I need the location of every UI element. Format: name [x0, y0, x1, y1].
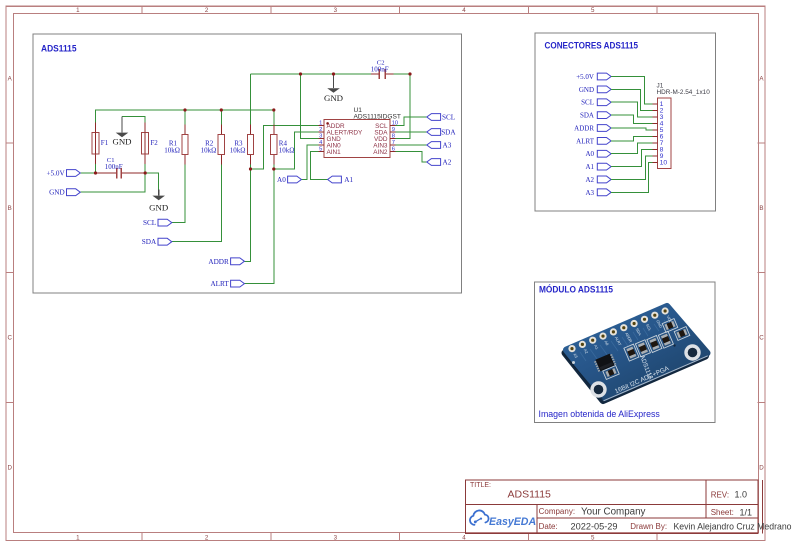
svg-text:A1: A1 [344, 176, 353, 184]
frame column ticks [142, 6, 657, 540]
svg-text:ADS1115: ADS1115 [41, 44, 77, 54]
port flag SCL connector [597, 99, 611, 106]
R2 top wire segment [220, 110, 222, 125]
wire ALRT port up to R4 junction [244, 169, 274, 284]
wire U1 pin 5 AIN1 to A1 port [310, 152, 327, 180]
svg-text:HDR-M-2.54_1x10: HDR-M-2.54_1x10 [657, 89, 711, 96]
wire U1 pin 7 AIN3 to A3 port [396, 144, 427, 146]
IC U1 left pin stubs [319, 126, 325, 152]
resistor R1 [182, 135, 188, 155]
port flag ADDR [231, 258, 245, 265]
module photo ADS1115 breakout board [563, 307, 708, 401]
svg-text:ALRT: ALRT [210, 280, 229, 288]
C1 pins [96, 172, 146, 174]
port flag GND connector [597, 86, 611, 93]
svg-text:Sheet:: Sheet: [711, 508, 734, 517]
svg-text:A2: A2 [585, 176, 594, 184]
wire F1 bottom to junction [95, 164, 97, 173]
svg-text:100nF: 100nF [371, 66, 389, 74]
wire R1 bottom to SCL port [172, 165, 185, 223]
svg-text:Your Company: Your Company [581, 506, 646, 517]
port flag SDA connector [597, 112, 611, 119]
wire A2 to J1 pin 9 [611, 156, 652, 180]
svg-text:SDA: SDA [441, 129, 456, 137]
port flag SCL [158, 219, 172, 226]
wire U1 pin 4 AIN0 to A0 port [301, 145, 319, 180]
svg-text:+5.0V: +5.0V [576, 73, 594, 81]
R1 top wire segment [184, 110, 186, 125]
svg-text:A3: A3 [443, 142, 452, 150]
svg-text:CONECTORES ADS1115: CONECTORES ADS1115 [545, 41, 639, 51]
port flag GND [67, 189, 81, 196]
port flag ADDR connector [597, 125, 611, 132]
C2 pins [371, 73, 394, 75]
module box MODULO ADS1115 [535, 282, 716, 423]
wire R4 junction to U1 pin 2 ALERT/RDY [274, 132, 319, 169]
port flag A0 [288, 176, 302, 183]
svg-text:C: C [759, 335, 764, 342]
svg-text:+5.0V: +5.0V [46, 170, 65, 178]
wire U1 pin 8 VDD up to rail [396, 74, 411, 139]
svg-text:2: 2 [205, 535, 209, 542]
port flag A0 connector [597, 150, 611, 157]
wire R4 top pin [273, 110, 275, 125]
F2 pins [144, 123, 146, 165]
wire +5.0V port to C1 junction [80, 172, 95, 174]
wire R3 bottom to junction [250, 165, 252, 170]
wire GND rail y74 left of C2 [251, 73, 372, 75]
svg-text:Date:: Date: [539, 522, 558, 531]
svg-text:GND: GND [49, 189, 65, 197]
connector J1 pin numbers [660, 101, 668, 167]
svg-text:AIN2: AIN2 [373, 149, 388, 156]
svg-text:Kevin Alejandro Cruz Medrano: Kevin Alejandro Cruz Medrano [674, 521, 792, 531]
wire +5.0V to J1 pin 1 [611, 77, 652, 104]
junction R4 bottom [272, 167, 275, 170]
IC U1 right pin numbers [392, 121, 398, 153]
frame column labels 1-5 bottom [76, 535, 595, 542]
svg-text:9: 9 [392, 127, 395, 133]
svg-text:7: 7 [392, 140, 395, 146]
wire R2 bottom to SDA port [172, 165, 222, 242]
svg-text:SDA: SDA [142, 238, 157, 246]
capacitor C1 [117, 168, 121, 178]
wire U1 pin 6 AIN2 to A2 port [396, 152, 427, 163]
port flag SDA [158, 238, 172, 245]
frame row labels A-D right [759, 75, 764, 471]
port flag SCL left-pointing [427, 114, 441, 121]
svg-text:1/1: 1/1 [740, 508, 753, 518]
svg-text:100nF: 100nF [105, 163, 123, 171]
svg-text:GND: GND [149, 202, 168, 212]
svg-text:SCL: SCL [442, 114, 455, 122]
junction +5V C1 [94, 171, 97, 174]
wire GND rail y74 right of C2 [394, 73, 411, 75]
svg-text:D: D [7, 464, 12, 471]
junction GND rail symbol [332, 72, 335, 75]
wire ADDR to J1 pin 5 [611, 128, 652, 130]
wire ALRT to J1 pin 6 [611, 136, 652, 141]
wire A1 to J1 pin 8 [611, 149, 652, 166]
junction GND rail pin3 [299, 72, 302, 75]
svg-text:ADS1115: ADS1115 [508, 489, 552, 501]
port flag A2 left-pointing [427, 159, 441, 166]
fuse F2 [142, 133, 149, 155]
main schematic box ADS1115 [33, 34, 462, 293]
svg-text:GND: GND [324, 93, 343, 103]
wire ADDR port up to R3 junction [244, 169, 251, 261]
svg-text:A0: A0 [277, 176, 286, 184]
R4 pins [273, 125, 275, 165]
port flag A3 left-pointing [427, 142, 441, 149]
svg-text:ALRT: ALRT [576, 137, 595, 145]
fuse F1 [92, 133, 99, 155]
port flag +5.0V [67, 170, 81, 177]
svg-text:A3: A3 [585, 189, 594, 197]
svg-text:1.0: 1.0 [735, 489, 748, 499]
wire GND rail to U1 pin 3 GND [301, 74, 319, 139]
svg-text:AIN1: AIN1 [327, 149, 342, 156]
port flag A1 connector [597, 163, 611, 170]
svg-text:A0: A0 [585, 150, 594, 158]
svg-text:2022-05-29: 2022-05-29 [571, 521, 618, 531]
wire R4 bottom to junction [273, 165, 275, 170]
svg-text:3: 3 [334, 7, 338, 14]
IC U1 left pin numbers [319, 121, 323, 153]
wire F2 top to GND symbol 1 bridge [122, 116, 145, 122]
svg-text:3: 3 [319, 134, 322, 140]
svg-text:F1: F1 [101, 139, 109, 147]
svg-text:10kΩ: 10kΩ [201, 146, 217, 154]
svg-text:GND: GND [579, 86, 594, 94]
wire SCL to J1 pin 3 [611, 102, 652, 117]
svg-text:Imagen obtenida de AliExpress: Imagen obtenida de AliExpress [539, 409, 661, 419]
svg-text:Drawn By:: Drawn By: [630, 522, 667, 531]
wire junction to GND symbol 2 [145, 173, 159, 191]
title block outline [466, 480, 763, 534]
EasyEDA logo [470, 510, 536, 527]
F1 pins [95, 123, 97, 165]
wire F2 bottom to junction [144, 164, 146, 173]
wire A3 to J1 pin 10 [611, 162, 652, 192]
junction VDD rail [408, 72, 411, 75]
wire A0 to J1 pin 7 [611, 143, 652, 154]
svg-text:GND: GND [112, 136, 131, 146]
wire R3 junction to U1 pin 1 ADDR [251, 126, 319, 170]
svg-text:SCL: SCL [581, 99, 594, 107]
svg-text:5: 5 [591, 7, 595, 14]
wire R3 top to GND rail [250, 74, 252, 125]
svg-text:SCL: SCL [143, 219, 156, 227]
port flag +5.0V connector [597, 73, 611, 80]
connector J1 body [657, 98, 670, 169]
ground symbol below C1 junction [158, 190, 160, 196]
connector box CONECTORES ADS1115 [535, 33, 716, 211]
svg-text:D: D [759, 464, 764, 471]
frame row labels A-D left [7, 75, 12, 471]
svg-text:SDA: SDA [580, 112, 594, 120]
svg-text:1: 1 [319, 121, 322, 127]
junction R4 top [272, 108, 275, 111]
svg-text:REV:: REV: [711, 490, 729, 499]
svg-text:4: 4 [462, 535, 466, 542]
IC U1 right pin stubs [390, 126, 396, 152]
svg-text:B: B [8, 205, 12, 212]
svg-text:Company:: Company: [539, 507, 575, 516]
frame row ticks [6, 143, 765, 402]
svg-text:8: 8 [392, 134, 395, 140]
svg-text:3: 3 [334, 535, 338, 542]
svg-text:ADS1115IDGST: ADS1115IDGST [354, 113, 401, 120]
svg-text:10: 10 [392, 121, 398, 127]
junction R1 top [183, 108, 186, 111]
svg-text:6: 6 [392, 147, 395, 153]
svg-text:ADDR: ADDR [208, 258, 229, 266]
IC U1 left pin names [327, 123, 363, 156]
svg-text:2: 2 [205, 7, 209, 14]
svg-text:1: 1 [76, 535, 80, 542]
svg-text:10kΩ: 10kΩ [279, 146, 295, 154]
junction R2 top [220, 108, 223, 111]
ground symbol near F2 top [121, 116, 123, 132]
R3 pins [250, 125, 252, 165]
wire +5V rail y110 [96, 110, 274, 123]
port flag A3 connector [597, 189, 611, 196]
junction GND C1 [144, 171, 147, 174]
resistor R3 [247, 135, 253, 155]
wire GND to J1 pin 2 [611, 89, 652, 110]
resistor R2 [218, 135, 224, 155]
svg-text:A2: A2 [443, 159, 452, 167]
svg-text:EasyEDA: EasyEDA [489, 516, 536, 528]
svg-text:ADDR: ADDR [574, 124, 594, 132]
port flag ALRT [231, 280, 245, 287]
IC U1 pin1 marker dot [326, 122, 329, 125]
svg-text:TITLE:: TITLE: [470, 482, 491, 489]
svg-text:F2: F2 [150, 139, 158, 147]
svg-text:10kΩ: 10kΩ [164, 146, 180, 154]
junction R3 bottom [249, 167, 252, 170]
ground symbol on GND rail near C2 [333, 74, 335, 88]
frame column labels 1-5 top [76, 7, 595, 14]
svg-text:A1: A1 [585, 163, 594, 171]
svg-text:10: 10 [660, 160, 668, 167]
R2 pins [220, 125, 222, 165]
svg-text:B: B [759, 205, 763, 212]
svg-text:1: 1 [76, 7, 80, 14]
wire U1 pin 9 to SDA port right [396, 131, 427, 133]
IC U1 ADS1115IDGST body [324, 120, 390, 158]
R1 pins [184, 125, 186, 165]
wire GND port to F2 junction [80, 173, 145, 192]
svg-text:5: 5 [319, 147, 322, 153]
connector J1 pin stubs [653, 104, 658, 163]
svg-text:4: 4 [462, 7, 466, 14]
IC U1 right pin names [373, 123, 388, 156]
port flag ALRT connector [597, 137, 611, 144]
wire SDA to J1 pin 4 [611, 115, 652, 123]
port flag SDA left-pointing [427, 129, 441, 136]
port flag A2 connector [597, 176, 611, 183]
svg-text:C: C [7, 335, 12, 342]
capacitor C2 [379, 69, 385, 79]
resistor R4 [271, 135, 277, 155]
svg-text:MÓDULO ADS1115: MÓDULO ADS1115 [539, 283, 613, 294]
svg-text:10kΩ: 10kΩ [230, 146, 246, 154]
port flag A1 left-pointing [328, 176, 342, 183]
wire U1 pin 10 to SCL port right [396, 117, 427, 126]
svg-text:2: 2 [319, 127, 322, 133]
svg-text:5: 5 [591, 535, 595, 542]
